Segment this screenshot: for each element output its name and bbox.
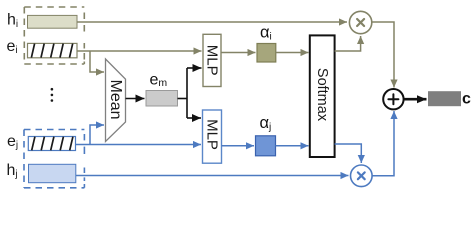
wire e_j to MLP2 (76, 144, 202, 146)
wire Mean to e_m (126, 98, 145, 100)
svg-text:αj: αj (260, 114, 272, 133)
wire alpha_i to Softmax (276, 52, 309, 54)
wire h_j to multiply (76, 175, 349, 177)
Softmax box (310, 35, 335, 157)
svg-text:ei: ei (7, 38, 18, 56)
svg-text:c: c (462, 90, 471, 107)
wire plus to c (404, 98, 427, 101)
wire MLP2 to alpha_j (222, 145, 255, 147)
wire e_m to MLP2 (187, 117, 201, 119)
svg-text:Softmax: Softmax (314, 68, 330, 122)
multiply node bottom (351, 165, 373, 187)
Mean trapezoid (106, 59, 126, 142)
wire e_i to MLP1 (77, 50, 202, 52)
svg-text:ej: ej (7, 133, 18, 151)
wire alpha_j to Softmax (276, 145, 309, 147)
svg-text:Mean: Mean (107, 79, 124, 119)
alpha_j box (256, 136, 276, 156)
wire multiply bottom to plus (372, 111, 394, 176)
wire multiply top to plus (372, 22, 394, 88)
e_m box (146, 91, 178, 107)
wire e_j branch to Mean (90, 125, 104, 145)
dashed group box i (24, 7, 84, 64)
wire h_i to multiply (77, 21, 347, 23)
h_i vector box (28, 15, 78, 28)
svg-text:MLP: MLP (204, 119, 221, 150)
h_j vector box (29, 164, 76, 182)
vertical dots (51, 88, 54, 102)
e_j vector box (hatched) (28, 137, 75, 151)
svg-text:MLP: MLP (204, 45, 221, 76)
MLP1 box (203, 34, 221, 86)
dashed group box j (24, 130, 84, 188)
svg-text:hi: hi (7, 12, 18, 30)
svg-text:hj: hj (7, 162, 18, 180)
wire Softmax to multiply bottom (335, 144, 362, 163)
MLP2 box (203, 110, 222, 163)
e_i vector box (hatched) (28, 43, 78, 57)
c box (428, 91, 461, 106)
plus node (383, 89, 403, 109)
wire MLP1 to alpha_i (221, 52, 256, 54)
multiply node top (349, 11, 371, 33)
wire e_i branch to Mean (90, 51, 104, 72)
alpha_i box (257, 44, 276, 63)
svg-text:αi: αi (260, 23, 272, 42)
wire Softmax to multiply top (335, 36, 361, 51)
wire e_m splitter (178, 68, 188, 118)
wire e_m to MLP1 (187, 67, 202, 69)
svg-text:em: em (150, 71, 168, 89)
